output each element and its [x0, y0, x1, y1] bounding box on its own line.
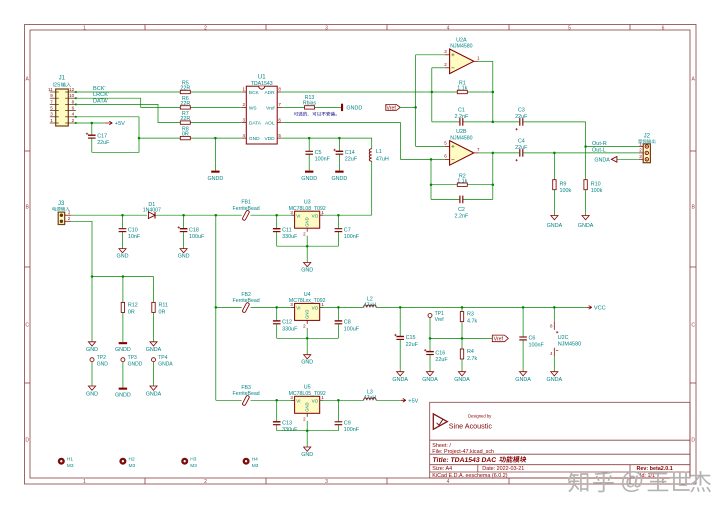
- svg-text:C4: C4: [518, 139, 525, 145]
- svg-text:TDA1543: TDA1543: [251, 81, 273, 87]
- mounting hole H1: [58, 456, 74, 468]
- svg-text:330uF: 330uF: [282, 326, 298, 332]
- svg-text:GNDD: GNDD: [115, 347, 131, 353]
- capacitor C11: [273, 215, 298, 246]
- svg-text:C9: C9: [344, 420, 351, 426]
- svg-text:Rbias: Rbias: [303, 101, 317, 107]
- svg-text:C: C: [691, 323, 695, 329]
- svg-text:C: C: [25, 323, 29, 329]
- svg-text:Vref: Vref: [435, 317, 445, 323]
- svg-text:GNDA: GNDA: [422, 377, 438, 383]
- svg-text:47uH: 47uH: [364, 395, 377, 401]
- wire net Out-L: [493, 147, 639, 179]
- capacitor C6: [519, 307, 544, 371]
- resistor R9: [553, 180, 572, 216]
- svg-text:KiCad E.D.A. eeschema (6.0.2): KiCad E.D.A. eeschema (6.0.2): [432, 473, 507, 479]
- capacitor C1: [455, 108, 469, 126]
- svg-text:100k: 100k: [560, 188, 572, 194]
- svg-text:DATA: DATA: [249, 121, 262, 127]
- mounting hole H3: [181, 456, 197, 468]
- svg-text:J1: J1: [59, 75, 66, 81]
- resistor R13 Rbias: [303, 95, 317, 109]
- svg-text:H1: H1: [67, 456, 73, 462]
- svg-text:D: D: [691, 438, 695, 444]
- svg-text:U2B: U2B: [456, 129, 467, 135]
- svg-text:100nF: 100nF: [529, 342, 545, 348]
- svg-text:U1: U1: [258, 74, 266, 80]
- svg-text:GNDA: GNDA: [158, 361, 173, 367]
- svg-text:FB3: FB3: [241, 385, 251, 391]
- power symbol GNDD (under R8): [207, 171, 223, 183]
- svg-text:1: 1: [83, 25, 86, 31]
- svg-text:R12: R12: [128, 302, 138, 308]
- wire net LRCK: [75, 92, 242, 107]
- svg-text:C5: C5: [315, 150, 322, 156]
- wire net U3 ground: [277, 236, 339, 263]
- svg-text:GND: GND: [97, 361, 109, 367]
- svg-text:2.7k: 2.7k: [467, 356, 477, 362]
- svg-text:VO: VO: [312, 213, 319, 218]
- svg-text:22uF: 22uF: [515, 114, 528, 120]
- svg-text:2: 2: [204, 25, 207, 31]
- wire net VDD (U1 pin5, C5, C14, L1, U3 out): [282, 137, 372, 217]
- svg-text:I2S: I2S: [53, 83, 61, 89]
- svg-text:VI: VI: [296, 306, 300, 311]
- svg-text:100uF: 100uF: [189, 234, 205, 240]
- svg-text:22R: 22R: [180, 86, 190, 92]
- power symbol +5V (L3): [401, 399, 419, 405]
- capacitor C9: [335, 400, 360, 433]
- mounting hole H2: [119, 456, 135, 468]
- svg-text:GNDA: GNDA: [392, 377, 408, 383]
- power symbol GND (C10): [117, 249, 129, 260]
- resistor R7: [180, 111, 190, 124]
- svg-text:330uF: 330uF: [282, 234, 298, 240]
- power symbol GND (U3): [301, 263, 313, 274]
- svg-text:R10: R10: [591, 181, 601, 187]
- svg-text:C16: C16: [435, 350, 445, 356]
- svg-text:LRCK': LRCK': [93, 92, 109, 98]
- svg-text:2: 2: [204, 479, 207, 485]
- svg-text:Out-R: Out-R: [592, 141, 607, 147]
- svg-text:GNDA: GNDA: [454, 377, 470, 383]
- power symbol GNDD (R13, rotated): [341, 104, 362, 112]
- wire net +5V rail: [320, 399, 401, 402]
- wire net FB2 to U4: [251, 306, 295, 309]
- wire net GND return (J3 pin2): [71, 221, 154, 341]
- connector J3 (power input): [52, 201, 71, 225]
- power symbol GNDD (TP3): [115, 388, 131, 399]
- svg-text:GNDD: GNDD: [207, 176, 223, 182]
- svg-text:22uF: 22uF: [406, 342, 419, 348]
- svg-text:GND: GND: [249, 136, 260, 142]
- wire net VIN rail: [71, 214, 295, 400]
- capacitor C18: [178, 215, 205, 248]
- svg-text:GNDD: GNDD: [115, 392, 131, 398]
- svg-text:VO: VO: [312, 306, 319, 311]
- test point TP1: [428, 311, 444, 339]
- svg-text:VI: VI: [296, 213, 300, 218]
- wire net DGND (J1 pin4 / C17 / R8): [75, 116, 242, 171]
- regulator U5 MC78L05: [289, 385, 326, 422]
- svg-text:C10: C10: [128, 227, 138, 233]
- wire net AOR (U1 pin8, R1, C1, U2A): [282, 61, 494, 123]
- power symbol GND (left column): [86, 342, 98, 353]
- inductor L3 47uH: [364, 389, 377, 401]
- svg-text:4: 4: [447, 479, 450, 485]
- svg-text:TP3: TP3: [128, 355, 137, 361]
- power symbol GNDA (R10): [578, 216, 594, 229]
- svg-text:File: Project-47.kicad_sch: File: Project-47.kicad_sch: [432, 449, 494, 455]
- capacitor C4: [515, 139, 528, 162]
- connector J2 (analog output): [638, 133, 655, 162]
- svg-text:+5V: +5V: [408, 399, 418, 405]
- capacitor C3: [515, 108, 528, 131]
- svg-text:3: 3: [325, 479, 328, 485]
- resistor R6: [180, 96, 190, 109]
- svg-text:L1: L1: [376, 149, 382, 155]
- wire net FB3 to U5: [251, 399, 295, 402]
- svg-text:M3: M3: [129, 463, 136, 469]
- svg-text:U2A: U2A: [456, 37, 467, 43]
- svg-text:NJM4580: NJM4580: [450, 43, 472, 49]
- svg-text:GND: GND: [178, 253, 190, 259]
- svg-text:NJM4580: NJM4580: [450, 135, 472, 141]
- svg-text:100uF: 100uF: [344, 326, 360, 332]
- wire net Out-R: [493, 122, 639, 180]
- svg-text:GNDA: GNDA: [594, 158, 610, 164]
- power symbol GNDA (R4): [454, 372, 470, 383]
- resistor R11: [152, 302, 168, 341]
- svg-text:DATA': DATA': [93, 98, 108, 104]
- svg-text:U3: U3: [304, 200, 311, 206]
- svg-text:GNDA: GNDA: [146, 347, 162, 353]
- svg-text:1: 1: [321, 210, 324, 216]
- svg-text:GND: GND: [305, 310, 310, 319]
- svg-text:Out-L: Out-L: [592, 147, 606, 153]
- svg-text:22R: 22R: [180, 116, 190, 122]
- resistor R5: [180, 81, 190, 94]
- power symbol GNDA (C15): [392, 372, 408, 383]
- svg-text:22uF: 22uF: [515, 145, 528, 151]
- capacitor C17: [86, 133, 110, 153]
- svg-text:VI: VI: [296, 399, 300, 404]
- svg-text:10: 10: [69, 93, 75, 98]
- svg-text:M3: M3: [252, 463, 259, 469]
- svg-text:ADR: ADR: [264, 90, 275, 96]
- svg-text:1.1k: 1.1k: [457, 86, 467, 92]
- svg-text:100nF: 100nF: [344, 234, 360, 240]
- svg-text:TP2: TP2: [97, 355, 106, 361]
- svg-text:FerriteBead: FerriteBead: [233, 206, 260, 212]
- svg-text:1: 1: [83, 479, 86, 485]
- capacitor C15: [394, 307, 418, 371]
- svg-text:Vref: Vref: [494, 337, 504, 343]
- resistor R12: [121, 302, 138, 342]
- svg-text:GND: GND: [301, 452, 313, 458]
- svg-text:0R: 0R: [128, 310, 135, 316]
- test point TP3: [121, 355, 143, 388]
- power symbol GNDA (C6): [515, 372, 531, 383]
- svg-text:Sine Acoustic: Sine Acoustic: [449, 421, 493, 430]
- resistor R8: [180, 127, 190, 140]
- svg-text:100nF: 100nF: [315, 157, 331, 163]
- wire net +5V at J1: [75, 122, 105, 135]
- svg-text:100nF: 100nF: [344, 427, 360, 433]
- svg-text:C2: C2: [458, 207, 465, 213]
- svg-text:GND: GND: [86, 347, 98, 353]
- svg-text:4: 4: [447, 25, 450, 31]
- power symbol +5V (J1): [105, 121, 125, 127]
- svg-text:3: 3: [325, 25, 328, 31]
- svg-text:0R: 0R: [159, 310, 166, 316]
- svg-text:WS: WS: [249, 105, 257, 111]
- wire net U4 ground: [277, 328, 339, 355]
- svg-text:GND: GND: [117, 253, 129, 259]
- power symbol GNDA (R11): [146, 342, 162, 353]
- svg-text:U5: U5: [304, 385, 311, 391]
- svg-text:GNDA: GNDA: [547, 223, 563, 229]
- global label Vref (divider): [485, 335, 508, 343]
- svg-text:MC78Lxx_T092: MC78Lxx_T092: [289, 298, 326, 304]
- svg-text:Vref: Vref: [387, 106, 397, 112]
- svg-text:VO: VO: [312, 399, 319, 404]
- svg-text:GNDD: GNDD: [346, 106, 362, 112]
- power symbol GND (C18): [178, 249, 190, 260]
- svg-text:5: 5: [568, 25, 571, 31]
- svg-text:6: 6: [662, 25, 665, 31]
- svg-text:NJM4580: NJM4580: [558, 342, 582, 348]
- diode D1 1N4007: [143, 202, 161, 219]
- resistor R1: [457, 81, 467, 94]
- svg-text:Designed by: Designed by: [468, 414, 492, 419]
- svg-text:C15: C15: [406, 335, 416, 341]
- svg-text:U4: U4: [304, 292, 311, 298]
- op-amp U2A NJM4580: [444, 37, 480, 73]
- svg-text:C11: C11: [282, 227, 292, 233]
- capacitor C10: [119, 215, 141, 248]
- svg-text:TP4: TP4: [158, 355, 167, 361]
- svg-text:C14: C14: [345, 150, 355, 156]
- mounting hole H4: [243, 456, 259, 468]
- power symbol GNDA (R9): [547, 216, 563, 229]
- wire net U5 ground: [277, 421, 339, 447]
- power symbol GNDD (C5): [301, 171, 317, 183]
- svg-text:AOL: AOL: [265, 121, 275, 127]
- note text (blue): [294, 112, 337, 117]
- power symbol GNDD (R12): [115, 342, 131, 353]
- svg-text:J2: J2: [644, 133, 651, 139]
- svg-text:GNDD: GNDD: [128, 361, 143, 367]
- resistor R3: [460, 307, 477, 338]
- svg-text:VCC: VCC: [594, 306, 606, 312]
- svg-text:GND: GND: [86, 391, 98, 397]
- svg-text:330uF: 330uF: [282, 427, 298, 433]
- test point TP4: [152, 355, 174, 386]
- svg-text:Size: A4: Size: A4: [432, 466, 452, 472]
- svg-text:100k: 100k: [591, 188, 603, 194]
- svg-text:C17: C17: [97, 133, 107, 139]
- svg-text:R4: R4: [467, 349, 474, 355]
- svg-text:FerriteBead: FerriteBead: [233, 298, 260, 304]
- resistor R4: [460, 338, 477, 371]
- wire net VCC rail: [320, 306, 587, 309]
- power symbol GNDA (J2 pin3): [594, 157, 638, 164]
- svg-text:12: 12: [69, 87, 75, 92]
- svg-text:M3: M3: [67, 463, 74, 469]
- svg-text:BCK: BCK: [249, 90, 260, 96]
- test point TP2: [90, 355, 108, 386]
- capacitor C12: [273, 307, 298, 338]
- svg-text:R9: R9: [560, 181, 567, 187]
- svg-text:GND: GND: [301, 360, 313, 366]
- svg-text:C7: C7: [344, 227, 351, 233]
- svg-text:47uH: 47uH: [376, 156, 389, 162]
- svg-text:R3: R3: [467, 311, 474, 317]
- svg-text:H3: H3: [190, 456, 196, 462]
- capacitor C8: [335, 307, 360, 338]
- svg-text:C3: C3: [518, 108, 525, 114]
- ferrite bead FB3: [233, 385, 260, 406]
- inductor L1 47uH: [369, 149, 389, 163]
- svg-text:Title: TDA1543 DAC: Title: TDA1543 DAC: [432, 457, 497, 464]
- svg-text:GNDD: GNDD: [331, 176, 347, 182]
- power symbol GND (U4): [301, 355, 313, 366]
- svg-text:1N4007: 1N4007: [143, 208, 161, 214]
- ferrite bead FB1: [233, 200, 260, 221]
- svg-text:C18: C18: [189, 227, 199, 233]
- ferrite bead FB2: [233, 292, 260, 313]
- capacitor C14: [333, 149, 357, 163]
- svg-text:C12: C12: [282, 320, 292, 326]
- svg-text:C13: C13: [282, 420, 292, 426]
- svg-text:4.7k: 4.7k: [467, 319, 477, 325]
- svg-text:R11: R11: [159, 302, 169, 308]
- svg-text:1.1k: 1.1k: [457, 178, 467, 184]
- wire net BCK: [75, 86, 242, 93]
- connector J1 (I2S input header): [48, 75, 76, 126]
- regulator U3 MC78L08: [289, 200, 326, 237]
- power symbol VCC: [587, 306, 606, 312]
- svg-text:47uH: 47uH: [364, 302, 377, 308]
- svg-text:GNDA: GNDA: [515, 377, 531, 383]
- IC U1 TDA1543: [242, 74, 282, 144]
- capacitor C5: [305, 150, 330, 163]
- svg-text:J3: J3: [58, 201, 65, 207]
- resistor R10: [584, 180, 603, 216]
- svg-text:GND: GND: [301, 268, 313, 274]
- svg-text:,: ,: [307, 112, 308, 117]
- wire net Vref (divider): [429, 337, 485, 340]
- svg-text:22uF: 22uF: [97, 140, 110, 146]
- wire net DATA: [75, 98, 242, 122]
- svg-text:D: D: [25, 438, 29, 444]
- regulator U4 MC78Lxx: [289, 292, 326, 329]
- svg-text:H4: H4: [252, 456, 258, 462]
- svg-text:GNDA: GNDA: [547, 377, 563, 383]
- power symbol GNDA (TP4): [146, 386, 162, 397]
- global label Vref (near U1): [386, 105, 400, 112]
- svg-text:+5V: +5V: [115, 121, 125, 127]
- svg-text:H2: H2: [129, 456, 135, 462]
- svg-text:C1: C1: [458, 108, 465, 114]
- title block: [430, 402, 690, 479]
- capacitor C16: [424, 338, 448, 371]
- svg-text:22uF: 22uF: [345, 157, 358, 163]
- svg-text:M3: M3: [190, 463, 197, 469]
- svg-text:@: @: [620, 468, 644, 495]
- watermark: [568, 468, 711, 495]
- capacitor C7: [335, 215, 360, 246]
- svg-text:GNDA: GNDA: [146, 391, 162, 397]
- power symbol GNDA (U2C): [547, 372, 563, 383]
- svg-text:2.2nF: 2.2nF: [455, 214, 469, 220]
- power symbol GNDD (C14): [331, 171, 347, 183]
- svg-text:10nF: 10nF: [128, 234, 141, 240]
- wire net Vref (to op-amp inputs): [400, 55, 445, 147]
- svg-text:Date: 2022-03-21: Date: 2022-03-21: [482, 466, 524, 472]
- svg-text:VDD: VDD: [264, 136, 275, 142]
- svg-text:TP1: TP1: [435, 311, 444, 317]
- resistor R2: [457, 173, 467, 186]
- svg-text:C8: C8: [344, 320, 351, 326]
- power symbol GND (TP2): [86, 386, 98, 397]
- svg-text:GND: GND: [305, 217, 310, 226]
- svg-text:Vref: Vref: [266, 105, 275, 111]
- svg-text:2.2nF: 2.2nF: [455, 114, 469, 120]
- svg-text:FerriteBead: FerriteBead: [233, 391, 260, 397]
- svg-text:BCK': BCK': [93, 86, 106, 92]
- svg-text:GND: GND: [305, 402, 310, 411]
- inductor L2 47uH: [364, 296, 377, 308]
- power symbol GND (U5): [301, 447, 313, 458]
- op-amp U2B NJM4580: [444, 129, 480, 165]
- svg-text:GNDA: GNDA: [578, 223, 594, 229]
- svg-text:0R: 0R: [182, 132, 189, 138]
- op-amp power U2C: [550, 307, 581, 371]
- svg-text:C6: C6: [529, 336, 536, 342]
- svg-text:22uF: 22uF: [435, 357, 448, 363]
- svg-text:FB1: FB1: [241, 200, 251, 206]
- wire net Vref (U1 pin7 to R13): [282, 106, 341, 108]
- svg-text:22R: 22R: [180, 101, 190, 107]
- capacitor C2: [455, 196, 469, 220]
- wire net AOL (U1 pin6, R2, C2, U2B): [282, 123, 494, 200]
- capacitor C13: [273, 400, 298, 433]
- svg-text:GNDD: GNDD: [301, 176, 317, 182]
- svg-text:U2C: U2C: [558, 335, 569, 341]
- power symbol GNDA (C16): [422, 372, 438, 383]
- svg-text:FB2: FB2: [241, 292, 251, 298]
